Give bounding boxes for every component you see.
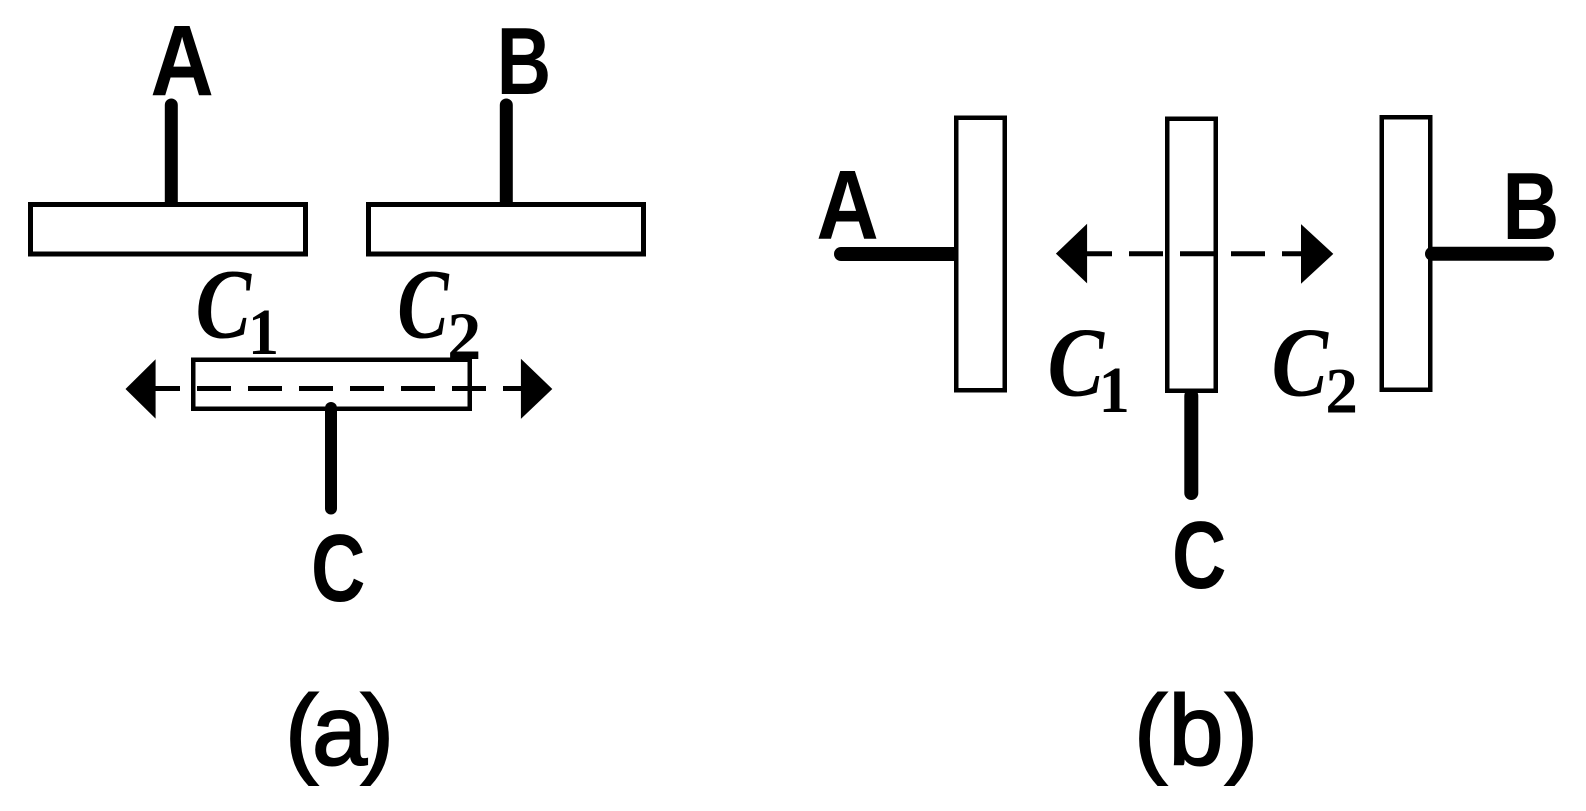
wire lead A (a) bbox=[165, 105, 178, 205]
svg-text:A: A bbox=[816, 150, 878, 260]
wire lead A (b) bbox=[841, 247, 956, 261]
svg-text:1: 1 bbox=[1099, 353, 1130, 426]
svg-text:B: B bbox=[1503, 153, 1560, 260]
label C1 subscript (b) bbox=[1099, 353, 1130, 426]
svg-text:C: C bbox=[1271, 307, 1329, 416]
wire lead C (b) bbox=[1184, 396, 1198, 493]
plate B (a) bbox=[369, 205, 644, 255]
arrow left (b) bbox=[1056, 224, 1087, 284]
svg-text:C: C bbox=[397, 250, 450, 360]
label C1 (b) bbox=[1047, 307, 1105, 416]
label C1 (a) bbox=[196, 249, 253, 360]
wire lead C (a) bbox=[325, 408, 337, 509]
svg-text:C: C bbox=[1172, 502, 1226, 609]
svg-text:(a): (a) bbox=[285, 674, 388, 785]
arrow left (a) bbox=[126, 359, 156, 418]
label C2 (a) bbox=[397, 250, 450, 360]
wire lead B (a) bbox=[500, 105, 513, 205]
svg-text:A: A bbox=[150, 5, 213, 117]
svg-text:C: C bbox=[196, 249, 253, 360]
caption (b) bbox=[1134, 674, 1260, 785]
caption (a) bbox=[285, 674, 388, 785]
label A (b) bbox=[816, 150, 878, 260]
plate A (b) bbox=[956, 118, 1005, 391]
label B (b) bbox=[1503, 153, 1560, 260]
movable plate C (a) bbox=[193, 360, 470, 409]
label C2 (b) bbox=[1271, 307, 1329, 416]
wire lead B (b) bbox=[1432, 247, 1547, 261]
arrow right (a) bbox=[521, 359, 552, 419]
label C (a) bbox=[311, 515, 365, 622]
dashed motion line (b) bbox=[1087, 251, 1301, 256]
plate B (b) bbox=[1382, 117, 1431, 390]
svg-text:C: C bbox=[311, 515, 365, 622]
svg-text:C: C bbox=[1047, 307, 1105, 416]
label C (b) bbox=[1172, 502, 1226, 609]
svg-text:(b): (b) bbox=[1134, 674, 1260, 785]
label A (a) bbox=[150, 5, 213, 117]
movable plate C (b) bbox=[1167, 119, 1216, 391]
svg-text:2: 2 bbox=[1325, 356, 1358, 428]
dashed motion line (a) bbox=[155, 386, 521, 391]
svg-text:1: 1 bbox=[248, 295, 279, 368]
plate A (a) bbox=[31, 205, 306, 255]
label B (a) bbox=[497, 8, 551, 115]
label C1 subscript (a) bbox=[248, 295, 279, 368]
arrow right (b) bbox=[1301, 224, 1333, 284]
